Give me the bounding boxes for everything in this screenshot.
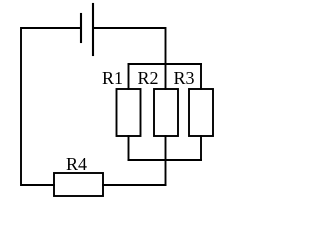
svg-text:R1: R1 bbox=[102, 68, 123, 88]
svg-text:R3: R3 bbox=[174, 68, 195, 88]
svg-text:R2: R2 bbox=[138, 68, 159, 88]
svg-text:R4: R4 bbox=[66, 154, 87, 174]
